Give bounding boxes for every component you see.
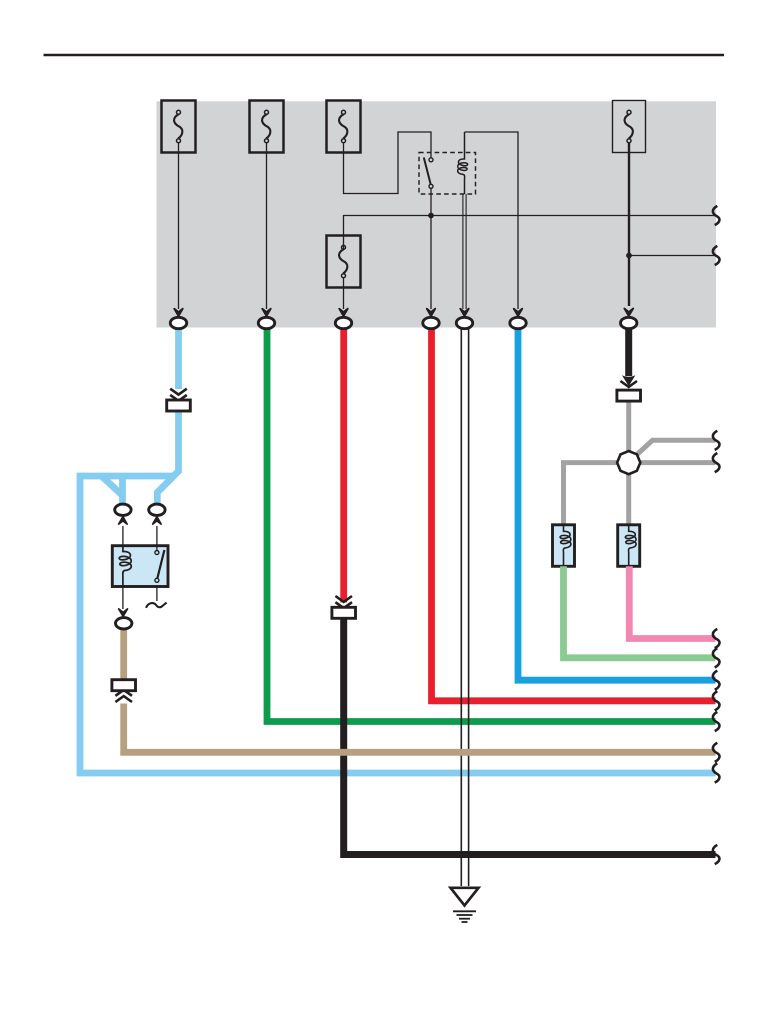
inline connector on red/black wire (332, 596, 356, 618)
fuse F4 (thin border) (613, 101, 646, 153)
lead from relay switch to connector 4 (427, 188, 436, 316)
break at wire B right end (713, 246, 720, 265)
wire: light green from left resistor to right edge (564, 566, 716, 658)
wire: green vertical and run to right edge (267, 327, 716, 722)
break at gray lower run (713, 453, 720, 472)
relay R2 coil (119, 546, 131, 587)
relay RL1 coil (458, 132, 468, 194)
lead from relay coil bottom to connector 5 (460, 194, 469, 316)
top rule (44, 54, 725, 57)
relay RL1 (dashed) (419, 153, 476, 195)
lead from oval pair right to relay R2 switch (156, 526, 158, 546)
lead from fuse F1 to connector (174, 142, 183, 316)
connector 7 (oval) (621, 309, 637, 329)
lead from oval pair left to relay R2 coil (122, 526, 124, 546)
lead from fuse F5 to connector 3 (339, 277, 348, 316)
inline connector on tan wire (112, 680, 136, 702)
oval connector on tan wire (116, 618, 132, 629)
lead from fuse F3 to relay switch (344, 132, 432, 194)
wire: white (double line) down to ground (461, 327, 468, 886)
wire: black continuation to bottom run (344, 619, 716, 855)
break at red run (713, 691, 720, 710)
relay R2 switch (155, 546, 165, 583)
wire: red (2nd) vertical and run to right edge (432, 327, 716, 701)
break at black run (713, 845, 720, 864)
lead from fuse F2 to connector (262, 142, 271, 316)
break at wire A right end (713, 206, 720, 225)
junction block (shaded) (157, 101, 717, 327)
wire A: horizontal from fuse F5 to right edge (344, 216, 716, 237)
junction dot on wire A (428, 213, 434, 219)
junction dot on wire B (626, 253, 632, 259)
wire: tan from relay coil to right edge (120, 629, 127, 679)
fuse F5 (lower) (327, 236, 361, 288)
connector 4 (oval) (423, 309, 439, 329)
break at tan run (713, 743, 720, 762)
lead from relay R2 switch down to break (156, 587, 158, 602)
wire: light blue vertical from connector 1 (175, 327, 182, 389)
connector 3 (oval) (335, 309, 351, 329)
break at green run (713, 712, 720, 731)
resistor (right, with coil) (618, 525, 640, 567)
connector 5 (oval) (456, 309, 472, 329)
fuse F1 (162, 101, 196, 153)
wire B: horizontal from fuse F4 lead to right edge (629, 255, 716, 257)
connector 2 (oval) (258, 309, 274, 329)
wire: black vertical from connector 7 (625, 327, 632, 376)
fuse F3 (327, 101, 361, 153)
resistor (left, with coil) (553, 525, 575, 567)
break at gray upper run (713, 431, 720, 450)
relay R2 (shaded box) (112, 546, 168, 587)
wire: gray from connector down to splice (626, 401, 631, 525)
arrow on black wire (622, 375, 635, 386)
break at light blue run (713, 763, 720, 782)
wire: gray diagonal and upper run to right edge (637, 440, 716, 454)
squiggle terminator under switch (146, 603, 167, 608)
inline connector on black/gray wire (617, 381, 641, 401)
wire: light blue bus and left branch (80, 476, 716, 773)
connector 6 (oval) (510, 309, 526, 329)
wire: gray right run from splice (640, 460, 716, 465)
wire: blue vertical and run to right edge (518, 327, 716, 680)
wire: pink from right resistor to right edge (629, 566, 715, 638)
lead into fuse F5 from wire A (343, 236, 345, 249)
lead from relay coil top to connector 6 (465, 132, 519, 309)
lead from fuse F4 to connector 7 (624, 142, 633, 316)
oval pair connector (left) (115, 504, 131, 524)
lead from relay R2 coil to tan oval (119, 587, 128, 617)
break at blue run (713, 671, 720, 690)
break at pink run (713, 629, 720, 648)
ground symbol (451, 888, 479, 922)
splice junction J1 (617, 451, 640, 474)
connector 1 (oval) (170, 309, 186, 329)
fuse F2 (250, 101, 284, 153)
inline connector on light blue wire (167, 389, 191, 411)
break at light green run (713, 648, 720, 667)
oval pair connector (right) (149, 504, 165, 524)
wire: gray left run from splice down to left resistor (564, 463, 629, 525)
wire: red vertical to inline connector (340, 327, 347, 603)
relay RL1 switch (424, 158, 433, 189)
